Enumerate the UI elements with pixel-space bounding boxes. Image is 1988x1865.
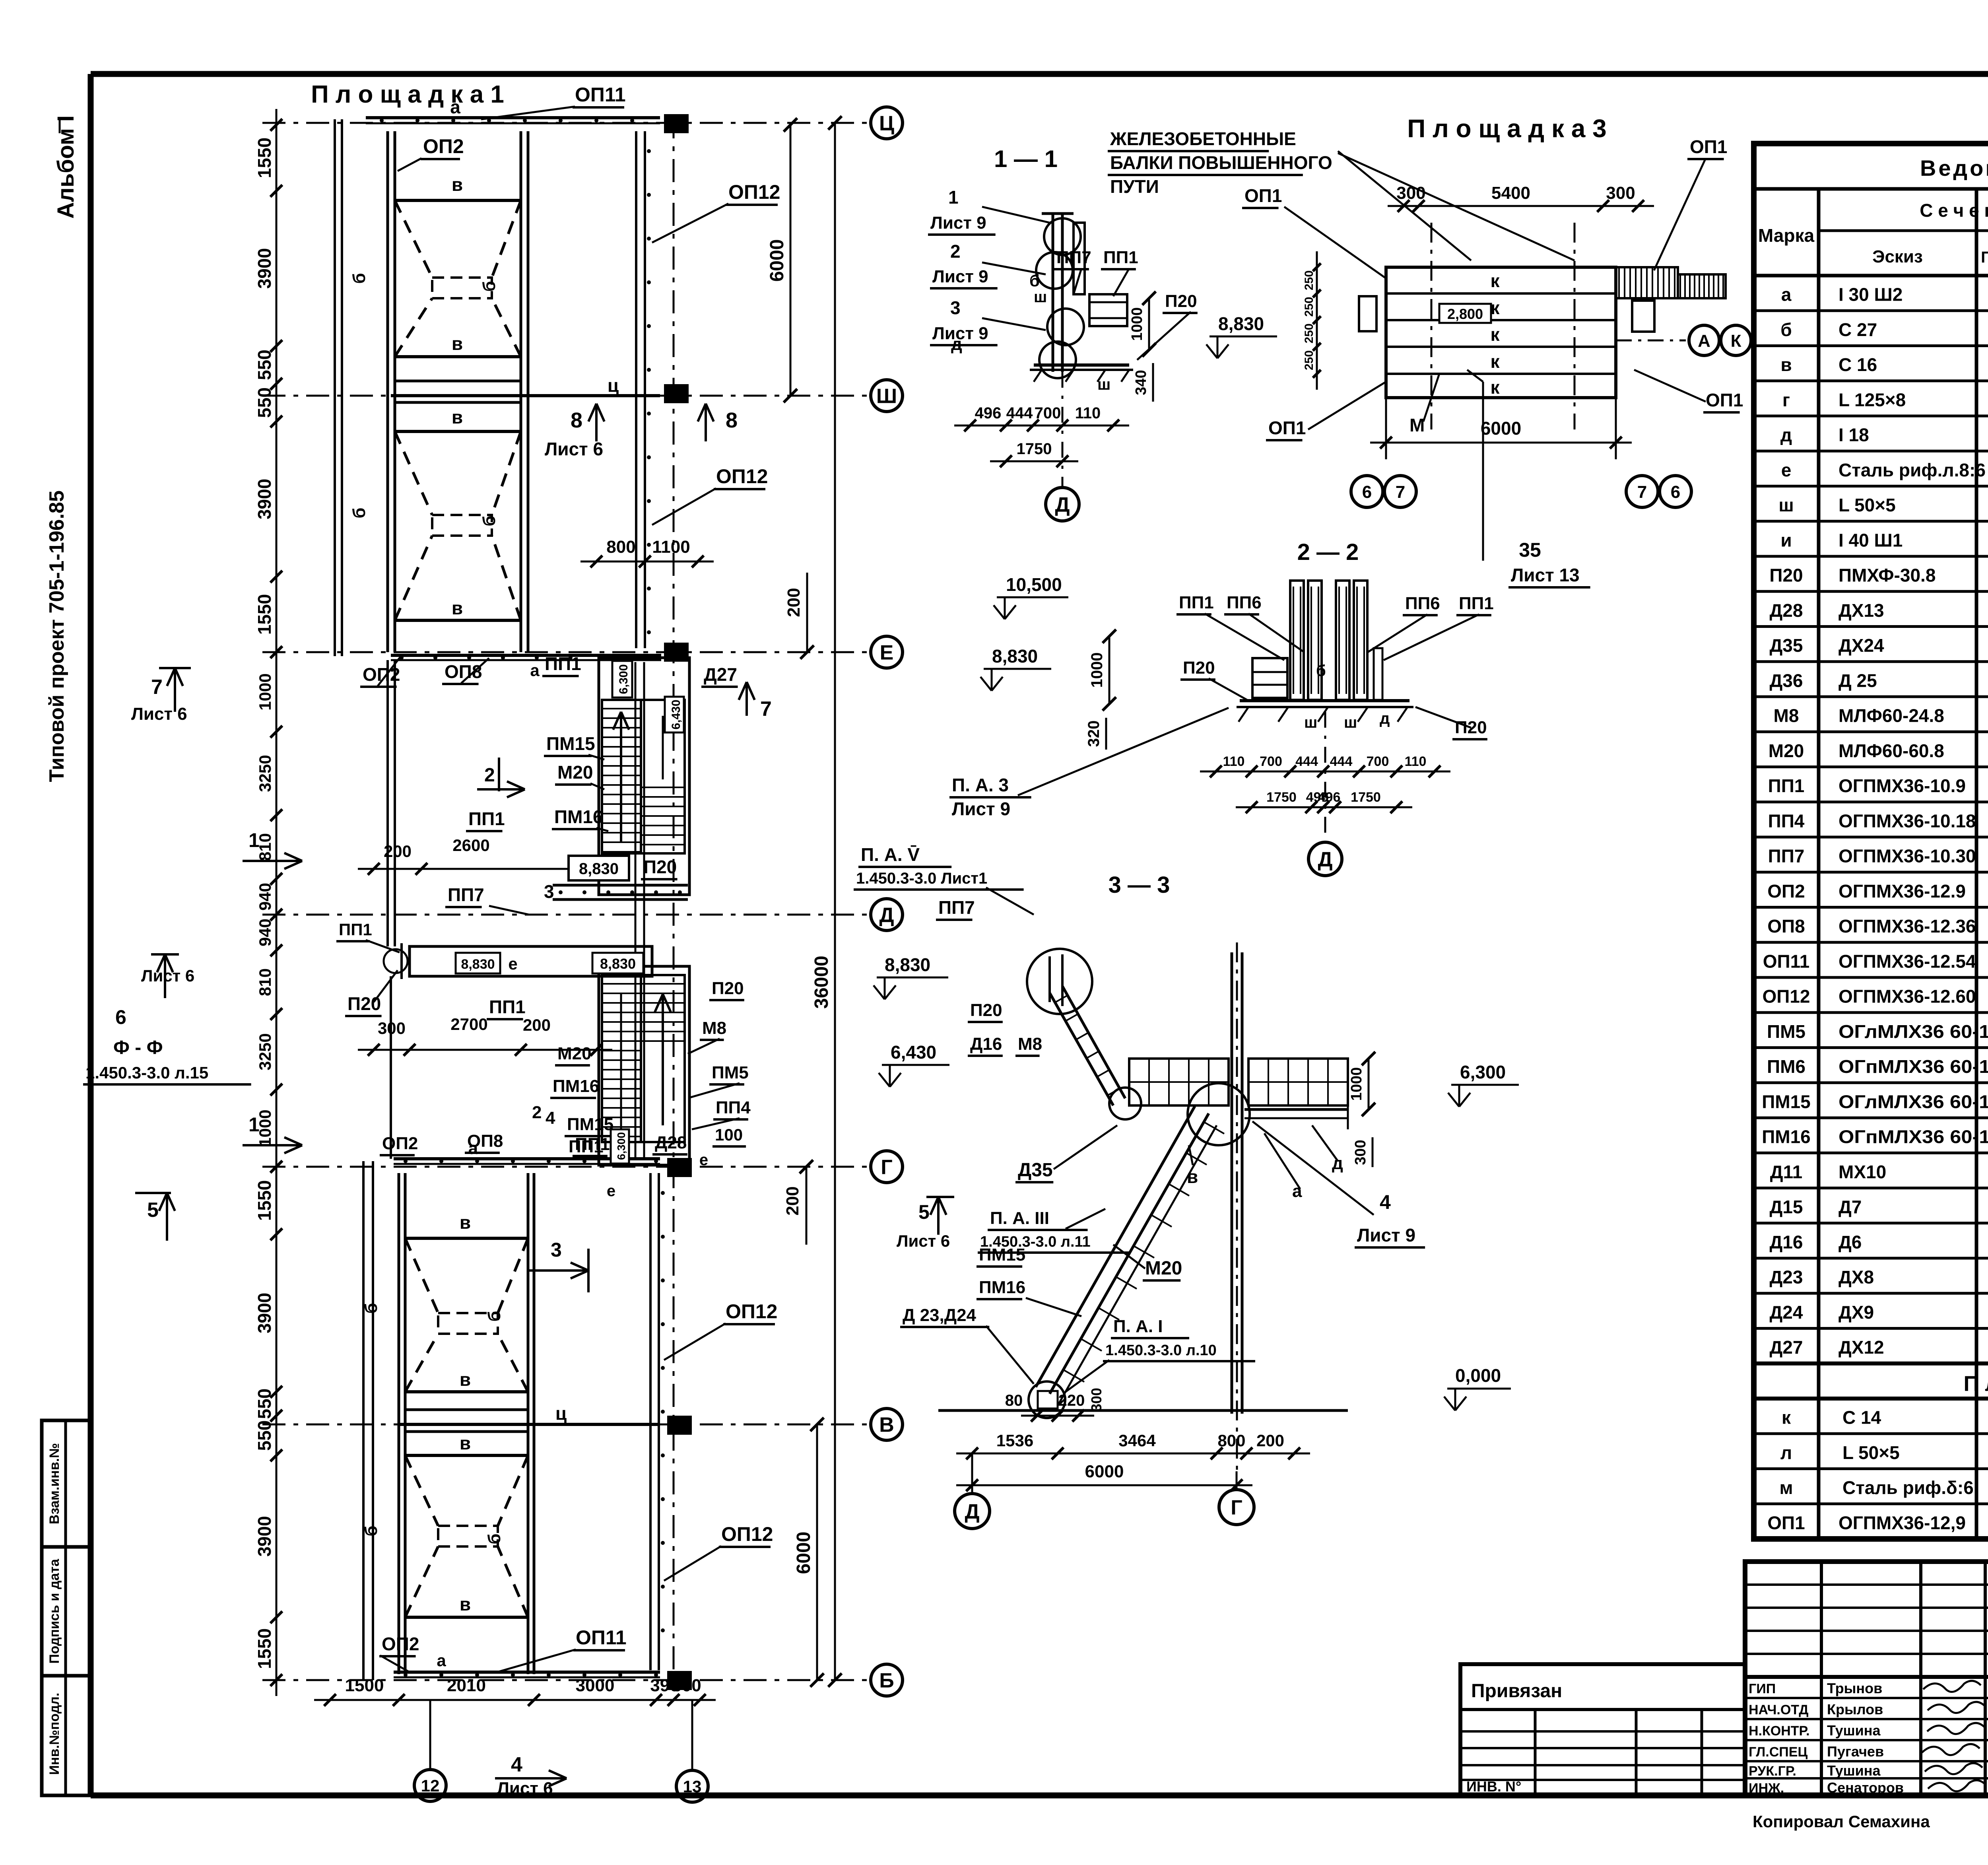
svg-text:Типовой проект 705-1-196.85: Типовой проект 705-1-196.85 bbox=[45, 490, 68, 782]
svg-text:444: 444 bbox=[1330, 754, 1353, 769]
row б bbox=[1780, 319, 1988, 341]
beam axes dash-dot bbox=[1431, 223, 1574, 429]
svg-text:П20: П20 bbox=[643, 857, 677, 877]
П.А.3 Лист 9 label bbox=[949, 708, 1229, 819]
svg-text:ДХ12: ДХ12 bbox=[1839, 1337, 1884, 1358]
lower dimension chain bbox=[254, 1151, 282, 1696]
svg-text:ГЛ.СПЕЦ: ГЛ.СПЕЦ bbox=[1749, 1745, 1807, 1760]
dim 800 1100 bbox=[580, 537, 714, 567]
boxed level 6,300 bbox=[612, 661, 632, 697]
table row lines bbox=[1754, 311, 1988, 1504]
svg-text:7: 7 bbox=[1396, 482, 1405, 502]
svg-text:Лист 13: Лист 13 bbox=[1511, 565, 1580, 585]
svg-text:5: 5 bbox=[147, 1199, 159, 1222]
truss panel U2 bbox=[349, 407, 521, 620]
mark Ф-Ф bbox=[83, 954, 251, 1084]
svg-text:8,830: 8,830 bbox=[600, 956, 636, 972]
svg-text:Лист 9: Лист 9 bbox=[930, 213, 986, 233]
label ПП1 below beam bbox=[487, 997, 526, 1019]
svg-text:3000: 3000 bbox=[576, 1676, 615, 1695]
svg-text:3900: 3900 bbox=[254, 1293, 275, 1333]
svg-text:ш: ш bbox=[1034, 288, 1047, 306]
svg-text:0,000: 0,000 bbox=[1455, 1365, 1501, 1386]
svg-text:б: б bbox=[1780, 319, 1792, 340]
svg-text:ПП1: ПП1 bbox=[489, 997, 526, 1017]
svg-text:ДХ24: ДХ24 bbox=[1839, 635, 1884, 656]
svg-text:ДХ8: ДХ8 bbox=[1839, 1267, 1874, 1288]
svg-text:П. А. III: П. А. III bbox=[990, 1208, 1049, 1228]
axis circle 12 bbox=[414, 1700, 446, 1801]
svg-text:С е ч е н и е: С е ч е н и е bbox=[1920, 200, 1988, 221]
svg-text:Ведомость элементов к пло: Ведомость элементов к площадке 1 bbox=[1920, 155, 1988, 181]
svg-text:Лист 6: Лист 6 bbox=[141, 966, 194, 985]
svg-text:к: к bbox=[1782, 1407, 1791, 1428]
svg-text:1.450.3-3.0 Лист1: 1.450.3-3.0 Лист1 bbox=[856, 870, 987, 887]
svg-text:б: б bbox=[485, 1533, 504, 1544]
svg-text:1550: 1550 bbox=[254, 594, 275, 635]
svg-text:110: 110 bbox=[1075, 404, 1101, 422]
section mark 7 Лист 6 bbox=[131, 668, 191, 724]
П.А.III label bbox=[978, 1208, 1130, 1253]
svg-text:3250: 3250 bbox=[256, 755, 274, 792]
svg-text:к: к bbox=[1490, 324, 1500, 345]
svg-text:1: 1 bbox=[248, 1113, 260, 1136]
svg-text:5: 5 bbox=[918, 1201, 930, 1223]
svg-text:Тушина: Тушина bbox=[1827, 1722, 1881, 1739]
row л bbox=[1780, 1442, 1988, 1464]
label ОП2 lower bbox=[379, 1634, 446, 1672]
svg-text:1550: 1550 bbox=[254, 1628, 275, 1669]
svg-text:МЛФ60-24.8: МЛФ60-24.8 bbox=[1839, 705, 1944, 726]
svg-text:Д 23,Д24: Д 23,Д24 bbox=[903, 1305, 977, 1325]
row и bbox=[1780, 530, 1988, 552]
row Д36 bbox=[1770, 670, 1988, 692]
svg-text:П. А. V̄: П. А. V̄ bbox=[861, 844, 920, 865]
axis Д bbox=[262, 899, 903, 931]
svg-text:НАЧ.ОТД: НАЧ.ОТД bbox=[1749, 1702, 1808, 1717]
svg-text:П20: П20 bbox=[1769, 565, 1803, 586]
svg-text:ОГПМХ36-10.30: ОГПМХ36-10.30 bbox=[1839, 846, 1976, 866]
svg-text:ОП11: ОП11 bbox=[576, 1626, 627, 1649]
label Д35 bbox=[1015, 1125, 1117, 1182]
axis Е bbox=[262, 636, 903, 668]
svg-text:200: 200 bbox=[523, 1016, 551, 1034]
row е bbox=[1781, 460, 1988, 496]
svg-text:б: б bbox=[361, 1303, 381, 1313]
section mark 3 lower bbox=[529, 1239, 588, 1292]
svg-text:1750: 1750 bbox=[1266, 790, 1297, 805]
lower stairwell bbox=[599, 966, 689, 1165]
svg-text:ОГПМХ36-12.60: ОГПМХ36-12.60 bbox=[1839, 986, 1976, 1007]
label Д27 bbox=[701, 664, 738, 687]
wall line ОП2 upper bbox=[335, 119, 342, 656]
привязан block bbox=[1460, 1664, 1745, 1795]
row ПМ5 bbox=[1767, 1021, 1988, 1043]
svg-text:б: б bbox=[349, 507, 369, 518]
svg-text:Д23: Д23 bbox=[1770, 1267, 1803, 1288]
svg-text:ОГлМЛХ36 60-12.24: ОГлМЛХ36 60-12.24 bbox=[1839, 1021, 1988, 1042]
svg-text:ОП8: ОП8 bbox=[445, 661, 482, 682]
ОП12 rail upper bbox=[636, 131, 651, 648]
row ПМ16 bbox=[1762, 1127, 1988, 1148]
svg-text:П20: П20 bbox=[348, 993, 381, 1014]
svg-text:300: 300 bbox=[1088, 1388, 1105, 1412]
svg-text:к: к bbox=[1490, 270, 1500, 291]
svg-text:200: 200 bbox=[384, 842, 412, 861]
svg-text:ГИП: ГИП bbox=[1749, 1681, 1776, 1696]
svg-text:и: и bbox=[1780, 530, 1792, 550]
row ПП4 bbox=[1768, 810, 1988, 832]
dim 200 lower bbox=[783, 1160, 813, 1245]
svg-text:П20: П20 bbox=[712, 979, 744, 998]
ОП12 rail continuation middle bbox=[635, 662, 644, 1158]
svg-text:а: а bbox=[530, 661, 540, 680]
svg-text:ИНЖ.: ИНЖ. bbox=[1749, 1781, 1784, 1796]
svg-text:550: 550 bbox=[254, 1389, 275, 1419]
svg-text:ПП6: ПП6 bbox=[1405, 594, 1440, 613]
svg-text:Г: Г bbox=[1231, 1496, 1242, 1519]
svg-text:ОГПМХ36-12.36: ОГПМХ36-12.36 bbox=[1839, 916, 1976, 936]
svg-text:300: 300 bbox=[1352, 1140, 1369, 1165]
row Д11 bbox=[1770, 1162, 1988, 1183]
svg-text:ПМ5: ПМ5 bbox=[712, 1063, 749, 1082]
left dimension chain bbox=[254, 109, 282, 668]
svg-text:ПП1: ПП1 bbox=[1103, 248, 1138, 267]
svg-text:в: в bbox=[460, 1594, 471, 1614]
svg-text:Копировал Семахина: Копировал Семахина bbox=[1753, 1812, 1930, 1831]
svg-text:Д36: Д36 bbox=[1770, 670, 1803, 691]
svg-text:35: 35 bbox=[1519, 539, 1541, 561]
svg-text:Крылов: Крылов bbox=[1827, 1701, 1883, 1717]
ref 35 Лист 13 bbox=[1467, 370, 1590, 587]
svg-text:1.450.3-3.0 л.15: 1.450.3-3.0 л.15 bbox=[85, 1063, 208, 1082]
svg-text:6,300: 6,300 bbox=[617, 664, 630, 694]
svg-text:ц: ц bbox=[555, 1403, 567, 1424]
hatched strip bbox=[1616, 267, 1678, 332]
axis centerline vertical bbox=[673, 115, 675, 1682]
truss panel L2 bbox=[361, 1433, 528, 1617]
dims 1000 300 sec3 bbox=[1348, 1052, 1375, 1116]
section 3-3 title bbox=[1109, 872, 1170, 898]
row а bbox=[1781, 284, 1988, 306]
dims 300 2700 200 bbox=[358, 1015, 612, 1056]
svg-text:ОГпМЛХ36 60-12.24: ОГпМЛХ36 60-12.24 bbox=[1839, 1056, 1988, 1077]
svg-text:1 — 1: 1 — 1 bbox=[994, 146, 1058, 172]
svg-text:320: 320 bbox=[1085, 721, 1103, 747]
svg-text:3 — 3: 3 — 3 bbox=[1109, 872, 1170, 898]
svg-text:М8: М8 bbox=[702, 1018, 726, 1038]
left small rect bbox=[1359, 296, 1376, 331]
svg-text:ДХ9: ДХ9 bbox=[1839, 1302, 1874, 1323]
svg-text:2 — 2: 2 — 2 bbox=[1297, 539, 1359, 565]
svg-text:Альбом I: Альбом I bbox=[53, 115, 79, 219]
svg-text:б: б bbox=[485, 1311, 504, 1321]
total dim 36000 bbox=[811, 116, 842, 1687]
svg-text:ПМ15: ПМ15 bbox=[546, 733, 595, 754]
stamp column Взам.инв.№ / Подпись и дата / Инв.№подл. bbox=[42, 1420, 91, 1795]
svg-text:Трынов: Трынов bbox=[1827, 1680, 1882, 1696]
svg-text:ОП1: ОП1 bbox=[1268, 418, 1306, 438]
svg-text:ОГПМХ36-12.9: ОГПМХ36-12.9 bbox=[1839, 881, 1966, 901]
svg-text:в: в bbox=[1187, 1166, 1198, 1187]
level 0,000 bbox=[1444, 1365, 1511, 1410]
svg-text:С 27: С 27 bbox=[1839, 319, 1877, 340]
row ПМ6 bbox=[1767, 1056, 1988, 1078]
svg-text:810: 810 bbox=[256, 968, 274, 996]
ground line bbox=[938, 1409, 1348, 1412]
svg-text:Д16: Д16 bbox=[970, 1034, 1002, 1054]
svg-text:300: 300 bbox=[378, 1019, 406, 1037]
svg-text:3900: 3900 bbox=[254, 479, 275, 519]
section mark 5 bbox=[135, 1193, 175, 1241]
svg-text:8,830: 8,830 bbox=[1218, 313, 1264, 334]
row ОП2 bbox=[1767, 881, 1988, 903]
svg-text:в: в bbox=[452, 407, 463, 427]
М20 label sec3 bbox=[1113, 1245, 1182, 1280]
svg-text:ПМ6: ПМ6 bbox=[1767, 1056, 1806, 1077]
row ОП11 bbox=[1763, 951, 1988, 973]
lower plan outline bbox=[399, 1173, 534, 1674]
svg-text:Сталь риф.л.8:6: Сталь риф.л.8:6 bbox=[1839, 460, 1986, 480]
dim 200 2600 bbox=[358, 836, 612, 875]
svg-text:800: 800 bbox=[606, 537, 635, 557]
svg-text:ОП2: ОП2 bbox=[382, 1134, 418, 1153]
svg-text:3: 3 bbox=[551, 1239, 562, 1261]
label а д 4 Лист 9 bbox=[1264, 1125, 1343, 1201]
svg-text:200: 200 bbox=[1256, 1431, 1284, 1450]
svg-text:6,300: 6,300 bbox=[615, 1132, 627, 1160]
label ПП1 at beam left end bbox=[336, 920, 400, 952]
svg-text:б: б bbox=[480, 515, 499, 526]
upper stairwell bbox=[599, 658, 689, 895]
svg-text:П л о щ а д к а 3: П л о щ а д к а 3 bbox=[1407, 114, 1606, 143]
svg-text:3900: 3900 bbox=[254, 248, 275, 289]
ОП12 rail lower bbox=[650, 1173, 665, 1670]
svg-text:Лист 9: Лист 9 bbox=[932, 267, 988, 286]
svg-text:ОП11: ОП11 bbox=[575, 84, 626, 106]
svg-text:3250: 3250 bbox=[256, 1033, 274, 1070]
svg-text:ПП4: ПП4 bbox=[716, 1098, 751, 1117]
svg-text:е: е bbox=[699, 1151, 708, 1169]
svg-text:ПУТИ: ПУТИ bbox=[1110, 176, 1159, 197]
svg-text:ш: ш bbox=[1097, 376, 1110, 393]
section mark 1 upper bbox=[243, 829, 302, 869]
label П20 left bbox=[345, 970, 398, 1016]
svg-text:Д: Д bbox=[1318, 848, 1332, 871]
svg-text:6: 6 bbox=[1671, 482, 1680, 502]
svg-text:БАЛКИ ПОВЫШЕННОГО: БАЛКИ ПОВЫШЕННОГО bbox=[1110, 152, 1332, 173]
svg-text:2: 2 bbox=[950, 241, 961, 262]
row М20 bbox=[1769, 740, 1988, 762]
title Площадка 1 bbox=[311, 81, 504, 108]
svg-text:П20: П20 bbox=[1183, 658, 1215, 678]
label в and leaders bbox=[1187, 1145, 1198, 1187]
svg-text:ПМ16: ПМ16 bbox=[554, 806, 603, 827]
note железобетонные балки bbox=[1108, 128, 1332, 197]
section 1-1 column bbox=[1030, 214, 1133, 382]
svg-text:I 30 Ш2: I 30 Ш2 bbox=[1839, 284, 1903, 305]
platform band below stair bbox=[553, 885, 688, 899]
svg-text:ОП8: ОП8 bbox=[467, 1131, 503, 1151]
row к bbox=[1782, 1407, 1988, 1429]
svg-text:ОП1: ОП1 bbox=[1767, 1512, 1805, 1533]
svg-text:ПМ15: ПМ15 bbox=[1762, 1091, 1811, 1112]
svg-text:ОП2: ОП2 bbox=[1767, 881, 1805, 901]
svg-text:ОГПМХ36-12.54: ОГПМХ36-12.54 bbox=[1839, 951, 1976, 971]
svg-text:700: 700 bbox=[1035, 404, 1061, 422]
svg-text:д: д bbox=[1380, 710, 1390, 727]
svg-text:2010: 2010 bbox=[447, 1676, 486, 1695]
svg-text:ОП11: ОП11 bbox=[1763, 951, 1809, 971]
svg-text:ОП12: ОП12 bbox=[716, 465, 768, 488]
subtitle Площадка 3 bbox=[1963, 1372, 1988, 1396]
svg-text:Лист 6: Лист 6 bbox=[545, 439, 603, 459]
svg-text:550: 550 bbox=[254, 350, 275, 380]
circles А К bbox=[1616, 325, 1751, 356]
svg-text:б: б bbox=[361, 1525, 381, 1536]
svg-text:б: б bbox=[349, 273, 369, 284]
svg-text:1: 1 bbox=[248, 829, 260, 851]
label ОП1 right bbox=[1634, 370, 1743, 412]
svg-text:6,300: 6,300 bbox=[1460, 1062, 1506, 1082]
chord plates at В bbox=[399, 1403, 660, 1432]
svg-text:МЛФ60-60.8: МЛФ60-60.8 bbox=[1839, 740, 1944, 761]
svg-text:Д15: Д15 bbox=[1770, 1197, 1803, 1217]
svg-text:1000: 1000 bbox=[1348, 1067, 1365, 1101]
svg-text:700: 700 bbox=[1367, 754, 1389, 769]
middle dimension chain bbox=[256, 636, 282, 1183]
svg-text:ПП1: ПП1 bbox=[545, 653, 581, 674]
svg-text:8: 8 bbox=[726, 408, 738, 432]
svg-text:П л о щ а д к а 1: П л о щ а д к а 1 bbox=[311, 81, 504, 108]
dims bottom sec2 bbox=[1200, 754, 1450, 777]
section 2-2 title bbox=[1297, 539, 1359, 565]
lower flight bbox=[1029, 1106, 1224, 1418]
svg-text:Лист 9: Лист 9 bbox=[1357, 1225, 1415, 1245]
table grid verticals bbox=[1819, 189, 1988, 1539]
dim 1000 340 pl3 bbox=[1129, 291, 1156, 357]
svg-text:Д: Д bbox=[879, 904, 894, 927]
svg-text:ПП1: ПП1 bbox=[339, 920, 372, 939]
svg-text:К: К bbox=[1731, 331, 1741, 351]
truss panel U1 bbox=[349, 174, 521, 357]
section mark 5 near 3-3 bbox=[897, 1197, 954, 1250]
svg-text:110: 110 bbox=[1223, 754, 1245, 769]
svg-text:ц: ц bbox=[608, 375, 619, 396]
svg-text:Ш: Ш bbox=[876, 385, 897, 408]
svg-text:Д27: Д27 bbox=[1770, 1337, 1803, 1358]
dims bottom sec1 bbox=[954, 404, 1129, 431]
svg-text:ПП7: ПП7 bbox=[448, 884, 484, 905]
boxed level 6,430 bbox=[665, 697, 684, 732]
svg-text:2600: 2600 bbox=[452, 836, 489, 855]
svg-text:С 16: С 16 bbox=[1839, 354, 1877, 375]
boxed level 8,830 #1 bbox=[569, 856, 678, 880]
svg-text:700: 700 bbox=[1260, 754, 1282, 769]
svg-text:ОП1: ОП1 bbox=[1706, 390, 1743, 410]
level 10,500 sec2 bbox=[994, 574, 1068, 619]
svg-text:Д27: Д27 bbox=[704, 664, 737, 685]
column squares lower bbox=[667, 1158, 692, 1177]
svg-text:М20: М20 bbox=[557, 762, 593, 783]
svg-text:ОП2: ОП2 bbox=[382, 1634, 419, 1654]
level 8,830 pl3 bbox=[1206, 313, 1277, 358]
svg-text:ПП7: ПП7 bbox=[1056, 248, 1091, 267]
svg-text:ш: ш bbox=[1344, 714, 1357, 731]
row Д35 bbox=[1770, 635, 1988, 657]
svg-text:к: к bbox=[1490, 377, 1500, 398]
row ПП7 bbox=[1768, 846, 1988, 868]
svg-text:ПМ5: ПМ5 bbox=[1767, 1021, 1806, 1042]
svg-text:4: 4 bbox=[546, 1108, 555, 1128]
svg-text:ПМ16: ПМ16 bbox=[979, 1278, 1025, 1297]
svg-text:6000: 6000 bbox=[793, 1532, 814, 1574]
svg-text:496: 496 bbox=[1318, 790, 1341, 805]
svg-text:940: 940 bbox=[256, 919, 274, 946]
label ОП11 lower bbox=[497, 1626, 627, 1672]
dim 6000 upper bbox=[767, 118, 797, 402]
label ОП12 l2 bbox=[664, 1523, 773, 1581]
Д23,Д24 label bbox=[900, 1305, 1034, 1384]
svg-text:П. А. 3: П. А. 3 bbox=[952, 775, 1009, 795]
svg-text:Д6: Д6 bbox=[1839, 1232, 1862, 1252]
svg-text:в: в bbox=[452, 174, 463, 195]
svg-text:Лист 9: Лист 9 bbox=[952, 798, 1010, 819]
section mark 8 Лист 6 bbox=[545, 404, 738, 459]
svg-text:1536: 1536 bbox=[996, 1431, 1033, 1450]
svg-text:ПП7: ПП7 bbox=[938, 897, 975, 918]
label ОП12 u1 bbox=[652, 181, 780, 243]
svg-text:I 18: I 18 bbox=[1839, 425, 1869, 445]
label ПП7 mid bbox=[445, 881, 554, 915]
title block texts bbox=[1749, 1589, 1988, 1831]
dim 6000 lower bbox=[793, 1418, 824, 1687]
svg-text:ОГпМЛХ36 60-12.54: ОГпМЛХ36 60-12.54 bbox=[1839, 1127, 1988, 1147]
row д bbox=[1780, 425, 1988, 461]
title block bbox=[1745, 1562, 1988, 1795]
svg-text:36000: 36000 bbox=[811, 956, 832, 1008]
svg-text:Д28: Д28 bbox=[655, 1133, 687, 1152]
svg-text:ЖЕЛЕЗОБЕТОННЫЕ: ЖЕЛЕЗОБЕТОННЫЕ bbox=[1110, 128, 1296, 149]
svg-text:3: 3 bbox=[950, 297, 961, 318]
svg-text:4: 4 bbox=[1380, 1191, 1391, 1213]
level 6,430 right bbox=[879, 1042, 949, 1087]
svg-text:А: А bbox=[1698, 331, 1710, 351]
svg-text:М20: М20 bbox=[1145, 1258, 1182, 1279]
row ОП1 bbox=[1767, 1512, 1988, 1534]
mid landing circle bbox=[1109, 1083, 1250, 1145]
svg-text:РУК.ГР.: РУК.ГР. bbox=[1749, 1764, 1796, 1779]
svg-text:ОГлМЛХ36 60-12.54: ОГлМЛХ36 60-12.54 bbox=[1839, 1091, 1988, 1112]
svg-text:6000: 6000 bbox=[1481, 418, 1521, 439]
svg-text:ОП12: ОП12 bbox=[1762, 986, 1810, 1007]
svg-text:ОП1: ОП1 bbox=[1244, 185, 1282, 206]
axis Д circle sec2 bbox=[1309, 712, 1342, 876]
margin text Типовой проект 705-1-196.85 bbox=[45, 490, 68, 782]
dim 300 5400 300 bbox=[1388, 183, 1654, 212]
section 1-1 leaders bbox=[928, 187, 1050, 235]
dims bottom sec3 bbox=[1005, 1388, 1105, 1422]
svg-text:е: е bbox=[1781, 460, 1792, 480]
svg-text:Пугачев: Пугачев bbox=[1827, 1743, 1884, 1760]
svg-text:Лист 6: Лист 6 bbox=[131, 704, 187, 724]
svg-text:ПМ15: ПМ15 bbox=[567, 1115, 613, 1134]
axis Ш bbox=[262, 380, 903, 412]
svg-text:ПМ15: ПМ15 bbox=[979, 1245, 1025, 1265]
svg-text:Тушина: Тушина bbox=[1827, 1762, 1881, 1779]
svg-text:250: 250 bbox=[1303, 270, 1316, 290]
svg-text:496: 496 bbox=[975, 404, 1002, 422]
